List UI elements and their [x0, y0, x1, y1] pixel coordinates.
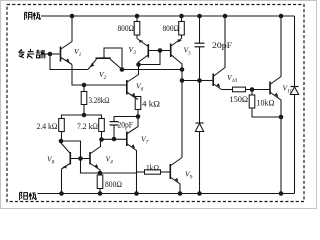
capacitor C1 20pF compensation	[195, 16, 205, 81]
svg-text:V1: V1	[74, 47, 82, 58]
junction R9 / R10 / V11 base node	[250, 87, 255, 92]
svg-text:10kΩ: 10kΩ	[257, 99, 275, 108]
junction R2 top on cathode rail	[179, 14, 184, 19]
svg-text:V3: V3	[129, 45, 137, 56]
resistor R10 10kohm	[249, 90, 281, 118]
junction V1 emitter / V6 base node	[82, 83, 87, 88]
junction V10 collector on cathode rail	[223, 14, 228, 19]
svg-text:V5: V5	[184, 46, 192, 57]
junction gain node A	[180, 67, 185, 72]
junction V3-V6 collector node	[136, 62, 141, 67]
svg-text:20pF: 20pF	[118, 121, 134, 130]
junction R1 top on cathode rail	[135, 14, 140, 19]
svg-text:800Ω: 800Ω	[105, 180, 122, 189]
junction V7 emitter on anode rail	[134, 191, 139, 196]
transistor V11	[270, 16, 281, 117]
transistor V6	[127, 65, 139, 100]
wire REF node down to V2 emitter	[50, 54, 88, 70]
transistor V1	[61, 16, 73, 65]
wire V7 base	[102, 138, 127, 140]
junction V1 collector on cathode rail	[70, 14, 75, 19]
svg-text:7.2 kΩ: 7.2 kΩ	[77, 122, 98, 131]
svg-text:1kΩ: 1kΩ	[146, 164, 159, 173]
svg-text:2.4 kΩ: 2.4 kΩ	[37, 122, 58, 131]
junction C2 bottom on V7 base line	[112, 137, 117, 142]
junction REF node	[48, 52, 53, 57]
junction VD2 bottom on anode rail	[197, 191, 202, 196]
wire base node down to emitter bus	[81, 159, 137, 174]
wire V10 base	[200, 80, 214, 82]
junction R4 bottom / V4 collector node	[99, 137, 104, 142]
svg-text:20pF: 20pF	[212, 41, 232, 50]
transistor V3	[137, 39, 149, 65]
junction V4 emitter / R7 top node	[98, 171, 103, 176]
junction V2 collector-base node	[120, 67, 125, 72]
resistor R6 4kohm	[135, 97, 141, 117]
wire reference input lead	[45, 53, 60, 55]
transistor V7	[127, 117, 138, 194]
resistor R3 2.4kohm	[59, 119, 65, 142]
junction V8 emitter on anode rail	[59, 191, 64, 196]
transistor V8	[61, 141, 70, 194]
terminal label anode (yangji)	[20, 192, 37, 200]
resistor R9 150ohm	[222, 87, 253, 92]
resistor R1 800ohm	[134, 16, 140, 39]
svg-text:V8: V8	[47, 155, 55, 166]
svg-text:150Ω: 150Ω	[230, 95, 249, 104]
junction V11 collector on cathode rail	[279, 14, 284, 19]
wire gain node across	[182, 80, 200, 82]
wire gain node to V10 base column	[181, 70, 183, 81]
svg-text:V10: V10	[227, 73, 237, 84]
resistor R8 1kohm	[137, 170, 171, 174]
transistor V9	[170, 158, 182, 194]
transistor V5	[170, 39, 182, 70]
resistor R7 800ohm bottom	[97, 173, 103, 194]
svg-text:800Ω: 800Ω	[163, 24, 180, 33]
resistor R5 3.28kohm	[81, 85, 87, 115]
wire V8 collector to base tie	[61, 141, 81, 159]
wire V3-V5 common base link	[148, 50, 170, 52]
junction gain node B	[180, 78, 185, 83]
svg-text:V6: V6	[136, 82, 144, 93]
terminal label cathode (yinji)	[25, 12, 41, 20]
junction V3-V5 base node	[158, 48, 163, 53]
diode VD1 protection	[290, 16, 298, 194]
diode VD2 middle	[195, 81, 203, 194]
wire gain node down to V9 collector	[181, 81, 183, 158]
svg-text:V9: V9	[185, 170, 193, 181]
transistor V10	[213, 16, 225, 90]
svg-text:3.28kΩ: 3.28kΩ	[89, 96, 110, 105]
svg-text:V11: V11	[283, 84, 293, 95]
junction V8-V4 base node	[78, 156, 83, 161]
transistor V4	[90, 140, 101, 174]
svg-text:V2: V2	[99, 70, 107, 81]
wire base link down to V3 collector node	[139, 51, 161, 65]
junction R3 bottom / V8 collector node	[59, 139, 64, 144]
transistor V2 (diode-connected)	[88, 48, 122, 70]
svg-text:V4: V4	[106, 155, 114, 166]
junction R7 bottom on anode rail	[98, 191, 103, 196]
wire V1 emitter down to 3.28k node	[72, 65, 84, 86]
wire V11 emitter column to rail	[280, 117, 282, 194]
wire V2 node to gain node	[122, 69, 182, 71]
junction C1 bottom / V10 base node	[197, 78, 202, 83]
resistor R2 800ohm	[179, 16, 185, 39]
wire V6 base from 3.28k node	[84, 84, 127, 86]
junction V11 column on anode rail	[279, 191, 284, 196]
wire to V11 base	[252, 89, 270, 91]
svg-text:800Ω: 800Ω	[118, 24, 135, 33]
junction R5 bottom divider node	[82, 113, 87, 118]
wire anode bottom rail	[38, 193, 295, 195]
svg-text:4 kΩ: 4 kΩ	[142, 100, 160, 109]
junction R10 bottom / V11 emitter node	[279, 115, 284, 120]
junction V9 emitter on anode rail	[178, 191, 183, 196]
wire cathode top rail	[41, 15, 295, 17]
capacitor C2 20pF inner	[110, 117, 139, 140]
wire divider rail node	[62, 115, 102, 119]
svg-text:V7: V7	[141, 135, 149, 146]
terminal label reference (cankaoduan)	[18, 49, 45, 59]
wire V8-V4 common base link	[70, 158, 90, 160]
junction C1 top on cathode rail	[197, 14, 202, 19]
junction R6 bottom / C2 / V7 collector node	[136, 114, 141, 119]
resistor R4 7.2kohm	[99, 119, 105, 140]
